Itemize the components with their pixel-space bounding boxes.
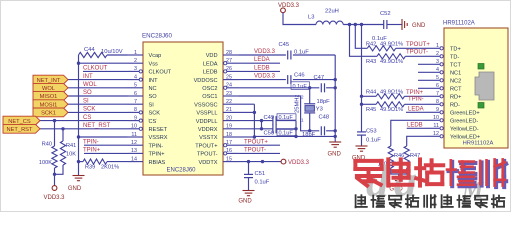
node VDD join top [260, 119, 263, 122]
resistor R40 100K [52, 146, 57, 168]
ENC28J60 pin 15 stub [223, 161, 239, 163]
wire GreenLED- to R46 [391, 120, 425, 146]
wire R41 to VDD node [55, 165, 64, 174]
ENC28J60 pin 17 stub [223, 144, 239, 146]
svg-text:TPOUT-: TPOUT- [197, 152, 218, 158]
wire GND rail vertical [334, 55, 336, 142]
svg-text:7: 7 [134, 99, 137, 105]
svg-text:0.1uF: 0.1uF [279, 115, 294, 121]
svg-text:25: 25 [226, 74, 232, 80]
ENC28J60 pin 10 stub [127, 128, 143, 130]
ENC28J60 pin 6 stub [127, 95, 143, 97]
svg-text:VDDOSC: VDDOSC [194, 78, 218, 84]
svg-text:18: 18 [226, 132, 232, 138]
svg-text:CS: CS [149, 119, 157, 125]
svg-text:C53: C53 [366, 129, 377, 135]
ENC28J60 pin 4 stub [127, 79, 143, 81]
svg-text:C52: C52 [380, 11, 391, 17]
wire R43 to TD- [405, 55, 425, 57]
ENC28J60 pin 7 stub [127, 103, 143, 105]
ENC28J60 pin 25 stub [223, 79, 239, 81]
svg-text:VSSRX: VSSRX [149, 135, 168, 141]
svg-text:SCK: SCK [149, 111, 161, 117]
svg-text:0.1uF: 0.1uF [293, 84, 308, 90]
svg-text:2: 2 [134, 58, 137, 64]
capacitor C53 0.1uF [357, 131, 366, 133]
capacitor C47 18pF [320, 83, 322, 92]
svg-text:LEDB: LEDB [407, 122, 423, 128]
wire LEDB row to YellowLED- [407, 127, 425, 129]
wire TPOUT- stub (pin16) [239, 152, 280, 154]
svg-text:INT: INT [83, 74, 93, 80]
svg-text:18pF: 18pF [317, 99, 331, 105]
wire VDD to L3 [283, 13, 316, 25]
svg-text:VDD3.3: VDD3.3 [43, 195, 65, 201]
svg-text:RBIAS: RBIAS [149, 160, 166, 166]
svg-text:RD-: RD- [450, 103, 460, 109]
svg-text:HR911102A: HR911102A [463, 141, 494, 147]
wire L3 to C52 [343, 24, 384, 26]
svg-text:19: 19 [226, 124, 232, 130]
svg-text:R41: R41 [66, 143, 76, 149]
ENC28J60 pin 21 stub [223, 111, 239, 113]
svg-text:GreenLED-: GreenLED- [450, 119, 478, 125]
svg-text:C45: C45 [279, 42, 290, 48]
svg-text:VDDTX: VDDTX [199, 160, 218, 166]
capacitor C46 0.1uF [287, 75, 289, 84]
resistor R47 180 [404, 146, 409, 168]
node NET_RST junction [61, 127, 64, 130]
svg-text:1: 1 [301, 118, 304, 123]
ground GND (C53) [356, 145, 368, 147]
svg-text:11: 11 [131, 132, 137, 138]
wire VSS join vertical to wireA [254, 104, 335, 136]
svg-text:MOSI1: MOSI1 [40, 102, 58, 108]
wire Vss rail [78, 55, 80, 137]
power VDD3.3 (bottom left) [52, 186, 57, 191]
svg-text:HR911102A: HR911102A [443, 21, 475, 27]
svg-text:22uH: 22uH [325, 9, 339, 15]
svg-text:VDDPLL: VDDPLL [196, 119, 218, 125]
wire net NET_RST row [40, 128, 127, 130]
svg-text:NC1: NC1 [450, 71, 461, 77]
svg-text:8: 8 [134, 107, 137, 113]
ENC28J60 pin 12 stub [127, 144, 143, 146]
ENC28J60 pin 24 stub [223, 87, 239, 89]
ENC28J60 pin 11 stub [127, 136, 143, 138]
svg-text:SCK1: SCK1 [41, 111, 56, 117]
node bias junctions [348, 23, 351, 26]
capacitor C48 18pF [320, 126, 322, 135]
svg-text:Vcap: Vcap [149, 53, 162, 59]
svg-text:49.9Ω1%: 49.9Ω1% [380, 59, 403, 65]
node R40/R41 join [53, 173, 56, 176]
svg-text:GND: GND [238, 199, 252, 205]
svg-text:22: 22 [226, 99, 232, 105]
svg-text:6: 6 [134, 91, 137, 97]
watermark red text 易迪拓培训 [355, 161, 381, 186]
ground GND (crystal block) [329, 141, 341, 143]
node OSC2/crystal junction [308, 86, 311, 89]
svg-text:NC: NC [149, 86, 157, 92]
svg-text:L3: L3 [308, 15, 314, 21]
svg-text:NET_RST: NET_RST [7, 127, 33, 133]
svg-text:49.9Ω1%: 49.9Ω1% [380, 41, 403, 47]
watermark dark text 射频和天线设计专家 [356, 195, 367, 207]
RJ45 jack graphic [475, 72, 494, 100]
node /CS junction [53, 119, 56, 122]
svg-text:TPIN-: TPIN- [83, 139, 99, 145]
svg-text:C44: C44 [84, 47, 95, 53]
wire LEDA row to GreenLED+ [406, 111, 425, 113]
svg-text:21: 21 [226, 107, 232, 113]
svg-text:SI: SI [83, 98, 89, 104]
svg-text:WOL: WOL [83, 82, 97, 88]
svg-text:TD-: TD- [450, 55, 459, 61]
power VDD3.3 (pin15) [281, 159, 286, 164]
wire R42 to TD+ [396, 47, 425, 49]
wire net TPIN- row [84, 144, 127, 146]
wire net CLKOUT row [83, 70, 127, 72]
svg-text:LEDA: LEDA [203, 61, 218, 67]
svg-text:Y3: Y3 [316, 107, 323, 113]
svg-text:4: 4 [134, 74, 137, 80]
capacitor C51 0.1uF [248, 162, 250, 175]
svg-text:TPIN+: TPIN+ [406, 90, 424, 96]
svg-text:C48: C48 [319, 115, 330, 121]
svg-text:TPOUT+: TPOUT+ [406, 42, 430, 48]
svg-text:OSC2: OSC2 [202, 86, 217, 92]
inductor L3 22uH [316, 21, 343, 24]
svg-text:VSSTX: VSSTX [199, 135, 218, 141]
resistor R39 2K0 1% (RBIAS) [83, 159, 107, 164]
svg-text:GND: GND [328, 152, 342, 158]
port SCK1 [33, 108, 68, 117]
resistor R42 49.9 1% [367, 46, 395, 51]
resistor R41 10K [60, 141, 65, 165]
capacitor C44 10u/10V (Vcap filter) [79, 52, 108, 57]
IC U? ENC28J60 body [143, 42, 223, 175]
svg-text:C50: C50 [264, 131, 275, 137]
svg-text:12: 12 [131, 140, 137, 146]
wire OSC2 row (pin24) [239, 87, 319, 89]
wire VSSTX row (pin18) [239, 136, 254, 138]
wire bias to R44/R45 [361, 25, 363, 132]
svg-text:VDD: VDD [206, 53, 218, 59]
svg-text:9: 9 [134, 115, 137, 121]
svg-text:5: 5 [134, 83, 137, 89]
ground GND (sideways, C52) [401, 19, 403, 30]
ground GND (left) [73, 175, 85, 177]
wire R46/R47 to ground [391, 168, 407, 174]
wire NET_RST to R41 [62, 129, 64, 141]
svg-text:SI: SI [149, 102, 155, 108]
node Vss junction [77, 62, 80, 65]
svg-text:ENC28J60: ENC28J60 [166, 168, 196, 174]
svg-text:TD+: TD+ [450, 47, 461, 53]
wire net SO row [68, 95, 127, 97]
ground GND (C51) [243, 190, 255, 192]
wire VSSOSC row (pin22) [239, 103, 254, 105]
svg-text:GND: GND [68, 186, 82, 192]
svg-text:R40: R40 [42, 142, 52, 148]
ground GND (LED resistors) [393, 177, 405, 179]
svg-text:VDD3.3: VDD3.3 [288, 160, 310, 166]
wire R45 to RD- [405, 103, 426, 105]
ENC28J60 pin 18 stub [223, 136, 239, 138]
ENC28J60 pin 1 stub [127, 54, 143, 56]
svg-text:100K: 100K [39, 160, 52, 166]
capacitor C45 0.1uF [287, 51, 289, 60]
ENC28J60 pin 23 stub [223, 95, 239, 97]
svg-text:TPIN-: TPIN- [149, 143, 164, 149]
ENC28J60 pin 27 stub [223, 62, 239, 64]
wire net /CS row [40, 120, 127, 122]
wire VSSPLL row (pin21) [239, 111, 254, 113]
svg-text:RESET: RESET [149, 127, 168, 133]
wire LEDB stub [239, 70, 280, 72]
wire VSSRX row [77, 135, 80, 138]
wire VDD join vertical [261, 121, 263, 129]
svg-text:CS: CS [83, 115, 91, 121]
wire VDDRX row (pin19) [239, 128, 273, 130]
ENC28J60 pin 3 stub [127, 70, 143, 72]
svg-text:GreenLED+: GreenLED+ [450, 111, 480, 117]
svg-text:R45: R45 [366, 107, 376, 113]
ENC28J60 pin 20 stub [223, 120, 239, 122]
svg-text:SO: SO [83, 90, 92, 96]
svg-text:WOL: WOL [42, 86, 55, 92]
svg-text:TPOUT+: TPOUT+ [244, 139, 268, 145]
svg-text:Vss: Vss [149, 61, 159, 67]
port NET_CS [3, 116, 40, 125]
svg-text:C49: C49 [264, 115, 275, 121]
svg-text:NET_INT: NET_INT [37, 78, 61, 84]
crystal Y3 25MHz [309, 88, 311, 104]
svg-text:TPOUT+: TPOUT+ [195, 143, 217, 149]
svg-text:VDD3.3: VDD3.3 [254, 49, 276, 55]
svg-text:LEDB: LEDB [203, 70, 218, 76]
wire VDDTX row (pin15) [239, 161, 281, 163]
svg-text:TPIN-: TPIN- [408, 97, 424, 103]
wire C49/C50 gnd join vertical [295, 121, 297, 137]
wire YellowLED+ to R47 [407, 136, 425, 146]
svg-text:LEDA: LEDA [408, 106, 424, 112]
wire VDDOSC row (pin25) [239, 79, 286, 81]
port NET_INT [33, 75, 68, 84]
ENC28J60 pin 14 stub [127, 161, 143, 163]
wire bias to R43 [350, 25, 378, 57]
svg-text:TPIN+: TPIN+ [83, 148, 101, 154]
svg-text:2: 2 [301, 95, 304, 100]
svg-text:3: 3 [134, 66, 137, 72]
svg-text:49.9Ω1%: 49.9Ω1% [380, 90, 403, 96]
svg-text:RCT: RCT [450, 87, 462, 93]
ENC28J60 pin 8 stub [127, 111, 143, 113]
svg-text:10: 10 [131, 124, 137, 130]
svg-text:10K: 10K [66, 152, 76, 158]
node VDD join bottom [260, 127, 263, 130]
svg-text:NET_RST: NET_RST [83, 123, 111, 129]
wire VDDPLL row (pin20) [239, 120, 273, 122]
wire net WOL row [68, 87, 127, 89]
svg-text:C47: C47 [314, 75, 325, 81]
svg-text:13: 13 [131, 148, 137, 154]
wire rail to R39 [78, 137, 80, 162]
port NET_RST [3, 124, 40, 133]
wire net SI row [68, 103, 127, 105]
port MISO1 [33, 92, 68, 101]
wire LEDA stub [239, 62, 280, 64]
svg-text:2K01%: 2K01% [101, 165, 119, 171]
capacitor C50 0.1uF [272, 124, 274, 133]
svg-text:R43: R43 [366, 59, 376, 65]
ENC28J60 pin 16 stub [223, 152, 239, 154]
svg-text:0.1uF: 0.1uF [255, 180, 270, 186]
wire /CS to R40 [54, 121, 56, 146]
node crystal bottom junction [308, 129, 311, 132]
svg-text:VSSOSC: VSSOSC [194, 102, 217, 108]
wire Vss row [79, 62, 128, 64]
resistor R44 49.9 1% [362, 95, 377, 97]
svg-text:RD+: RD+ [450, 95, 461, 101]
svg-text:YellowLED+: YellowLED+ [450, 135, 480, 141]
svg-text:49.9Ω1%: 49.9Ω1% [380, 107, 403, 113]
svg-text:INT: INT [149, 78, 159, 84]
wire bias to R42 [355, 25, 367, 49]
connector J? HR911102A body [444, 28, 508, 148]
svg-text:GND: GND [412, 23, 426, 29]
ENC28J60 pin 19 stub [223, 128, 239, 130]
svg-text:TCT: TCT [450, 63, 461, 69]
svg-text:MISO1: MISO1 [40, 94, 58, 100]
svg-text:15: 15 [226, 156, 232, 162]
wire net SCK row [68, 111, 127, 113]
svg-text:LEDB: LEDB [254, 65, 270, 71]
node C51 junction [247, 160, 250, 163]
ENC28J60 pin 13 stub [127, 152, 143, 154]
svg-text:C46: C46 [294, 73, 305, 79]
svg-text:0.1uF: 0.1uF [279, 131, 294, 137]
svg-text:28: 28 [226, 50, 232, 56]
svg-text:R39: R39 [85, 165, 95, 171]
resistor R46 180 [388, 146, 393, 168]
ENC28J60 pin 9 stub [127, 120, 143, 122]
svg-text:LEDA: LEDA [254, 57, 270, 63]
svg-text:20: 20 [226, 115, 232, 121]
wire TPOUT+ stub (pin17) [239, 144, 280, 146]
svg-text:R44: R44 [366, 90, 376, 96]
svg-text:NET_CS: NET_CS [8, 119, 31, 125]
ENC28J60 pin 22 stub [223, 103, 239, 105]
svg-text:C51: C51 [255, 171, 266, 177]
svg-text:YellowLED-: YellowLED- [450, 127, 479, 133]
svg-text:23: 23 [226, 91, 232, 97]
wire net TPIN+ row [84, 152, 127, 154]
port MOSI1 [33, 100, 68, 109]
svg-text:VDD3.3: VDD3.3 [254, 74, 276, 80]
ENC28J60 pin 28 stub [223, 54, 239, 56]
svg-text:0.1uF: 0.1uF [366, 138, 381, 144]
svg-text:VSSPLL: VSSPLL [196, 111, 217, 117]
port WOL [33, 83, 68, 92]
svg-text:R42: R42 [366, 41, 376, 47]
svg-text:CLKOUT: CLKOUT [149, 70, 172, 76]
wire net INT row [68, 79, 127, 81]
wire VDD row (pin28) [239, 54, 286, 56]
svg-text:TPOUT-: TPOUT- [244, 148, 266, 154]
resistor R45 49.9 1% [362, 103, 377, 105]
svg-text:1: 1 [134, 50, 137, 56]
svg-text:TPIN+: TPIN+ [149, 152, 165, 158]
svg-text:VDDRX: VDDRX [198, 127, 218, 133]
svg-text:ENC28J60: ENC28J60 [142, 33, 172, 40]
ENC28J60 pin 26 stub [223, 70, 239, 72]
wire R44 to RD+ [405, 95, 426, 97]
svg-text:TPOUT-: TPOUT- [406, 50, 428, 56]
svg-text:NC2: NC2 [450, 79, 461, 85]
ENC28J60 pin 5 stub [127, 87, 143, 89]
ENC28J60 pin 2 stub [127, 62, 143, 64]
svg-text:SCK: SCK [83, 107, 95, 113]
capacitor C52 0.1uF [383, 20, 385, 29]
svg-text:OSC1: OSC1 [202, 94, 217, 100]
svg-text:CLKOUT: CLKOUT [83, 66, 108, 72]
svg-text:14: 14 [131, 156, 137, 162]
svg-text:SO: SO [149, 94, 158, 100]
resistor R43 49.9 1% [377, 54, 405, 59]
wire OSC1 row (pin23) [239, 96, 319, 131]
svg-text:25MHz: 25MHz [295, 95, 301, 113]
capacitor C49 0.1uF [272, 116, 274, 125]
svg-text:10u/10V: 10u/10V [101, 49, 123, 55]
